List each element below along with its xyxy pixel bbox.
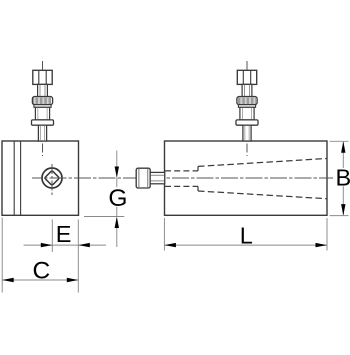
hidden taper bottom — [198, 191, 327, 199]
clamping bolt (right view) — [236, 61, 258, 156]
L arrow left — [164, 243, 176, 247]
B arrow down — [341, 204, 345, 216]
hidden taper top — [198, 159, 327, 167]
B dimension lower segment — [342, 186, 344, 215]
G arrow up — [115, 217, 119, 229]
holder body (end view) — [2, 141, 79, 215]
main horizontal centerline — [32, 177, 333, 179]
G arrow down — [115, 167, 119, 179]
E extension right — [77, 220, 79, 293]
E arrow right — [41, 243, 53, 247]
B extension top — [330, 140, 349, 142]
C arrow left — [2, 278, 14, 282]
edge line 2 — [20, 141, 22, 215]
svg-text:E: E — [56, 221, 72, 247]
L extension left — [163, 218, 165, 251]
hidden slot: step top — [197, 166, 199, 171]
G dimension lower segment — [116, 227, 118, 247]
hidden slot: narrow bore bottom — [165, 185, 198, 187]
L arrow right — [316, 243, 328, 247]
C extension left — [1, 218, 3, 293]
hidden slot: step bottom — [197, 186, 199, 191]
side set screw head — [136, 168, 150, 188]
E dimension line — [24, 244, 106, 246]
L dimension line — [164, 244, 327, 246]
square drive hole: square — [45, 171, 60, 186]
svg-text:G: G — [108, 185, 127, 212]
E extension centerline — [51, 220, 53, 253]
svg-text:C: C — [32, 258, 50, 285]
B extension bottom — [330, 215, 349, 217]
square drive hole: circle — [42, 168, 62, 188]
C arrow right — [67, 278, 79, 282]
clamping bolt (left view) — [32, 61, 54, 156]
holder body (side view) — [165, 141, 328, 215]
E arrow left — [78, 243, 90, 247]
G dimension upper segment — [116, 151, 118, 168]
edge line 1 — [13, 141, 15, 215]
G extension line bottom — [84, 216, 124, 218]
svg-text:L: L — [240, 223, 253, 249]
svg-text:B: B — [335, 165, 350, 191]
G dimension middle segments — [116, 178, 118, 187]
B arrow up — [341, 141, 345, 153]
B dimension upper segment — [342, 142, 344, 168]
C dimension line — [2, 279, 78, 281]
L extension right — [326, 218, 328, 251]
hidden slot: narrow bore top — [165, 170, 198, 172]
hole vertical centerline — [51, 163, 53, 197]
side set screw shaft — [150, 172, 165, 183]
